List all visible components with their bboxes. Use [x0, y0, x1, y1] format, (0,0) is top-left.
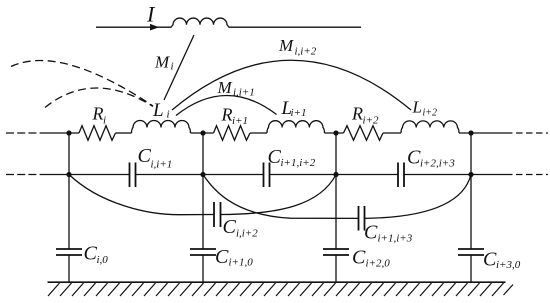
wire [325, 132, 344, 134]
svg-text:i: i [167, 109, 170, 121]
wire [116, 132, 132, 134]
svg-text:R: R [221, 105, 233, 125]
wire main line right dashed stub [506, 132, 548, 134]
wire [459, 132, 506, 134]
wire second line seg 2 [136, 174, 264, 176]
svg-text:M: M [278, 36, 294, 55]
svg-text:C: C [364, 222, 378, 244]
inductor L_i [132, 121, 191, 133]
svg-text:i,i+1: i,i+1 [151, 159, 173, 171]
capacitor C_i+1,i+3 [359, 206, 365, 231]
node 1 (second line) [66, 172, 71, 177]
wire top right [229, 26, 362, 28]
capacitor C_i+2,0 [323, 249, 349, 255]
wire curved C_i+1,i+3 left half [203, 175, 359, 219]
wire C_i+3,0 to ground [470, 255, 472, 282]
capacitor C_i+2,i+3 [398, 163, 404, 188]
dashed mutual arc lower left [45, 88, 153, 108]
svg-text:i: i [171, 61, 174, 73]
wire C_i,0 to ground [68, 255, 70, 282]
wire second line seg 1 [41, 174, 130, 176]
wire second line seg 3 [270, 174, 399, 176]
svg-text:i+1: i+1 [232, 115, 248, 127]
wire C_i+1,0 to ground [202, 255, 204, 282]
svg-text:i+2,i+3: i+2,i+3 [420, 158, 455, 170]
wire C_i+2,0 to ground [335, 255, 337, 282]
svg-text:M: M [217, 78, 233, 97]
wire curved C_i,i+2 right half [221, 175, 337, 215]
capacitor C_i+3,0 [458, 249, 484, 255]
wire [250, 132, 267, 134]
wire second line seg 4 [404, 174, 506, 176]
svg-text:C: C [483, 249, 497, 271]
svg-text:i: i [103, 115, 106, 127]
wire main line left dashed stub [6, 132, 41, 134]
svg-text:i+2: i+2 [423, 108, 438, 119]
capacitor C_i,i+1 [130, 163, 136, 188]
svg-text:i,i+2: i,i+2 [236, 228, 258, 240]
current arrow [150, 24, 159, 31]
capacitor C_i,i+2 [214, 202, 221, 227]
node 1 (main line) [66, 130, 71, 135]
svg-text:L: L [412, 98, 422, 117]
wire top left (return conductor) [96, 26, 172, 28]
svg-text:i,0: i,0 [97, 254, 109, 266]
wire second line left dashed stub [6, 174, 41, 176]
svg-text:i+1,0: i+1,0 [229, 257, 254, 269]
svg-text:i+2,0: i+2,0 [366, 258, 391, 270]
wire vertical node 3 to C_i+2,0 [335, 133, 337, 249]
svg-text:L: L [152, 100, 164, 121]
svg-text:i+3,0: i+3,0 [496, 259, 521, 271]
svg-text:i+2: i+2 [363, 115, 379, 127]
svg-text:R: R [351, 104, 363, 124]
svg-text:C: C [407, 147, 421, 169]
svg-text:i,i+1: i,i+1 [233, 87, 255, 99]
node 2 (second line) [200, 172, 205, 177]
svg-text:i+1,i+3: i+1,i+3 [378, 233, 413, 245]
svg-text:R: R [92, 104, 104, 124]
mutual arc M_i,i+2 [172, 60, 411, 110]
inductor top (return conductor coil) [172, 18, 229, 27]
svg-text:C: C [215, 246, 229, 268]
node 3 (second line) [333, 172, 338, 177]
node 4 (second line) [468, 172, 473, 177]
ground hatching [48, 283, 513, 296]
capacitor C_i+1,i+2 [264, 163, 270, 188]
wire [383, 132, 401, 134]
wire curved C_i+1,i+3 right half [365, 175, 472, 219]
wire vertical node 2 to C_i+1,0 [202, 133, 204, 249]
wire [191, 132, 214, 134]
ground plane line [48, 281, 506, 283]
wire second line right dashed stub [506, 174, 548, 176]
node 3 (main line) [333, 130, 338, 135]
svg-text:C: C [268, 146, 282, 168]
inductor L_i+1 [267, 121, 325, 133]
svg-text:C: C [138, 145, 152, 167]
wire main line left [41, 132, 79, 134]
mutual arc M_i,i+1 [176, 95, 277, 115]
svg-text:i,i+2: i,i+2 [295, 46, 317, 58]
svg-text:C: C [223, 216, 237, 238]
svg-text:C: C [352, 247, 366, 269]
capacitor C_i+1,0 [190, 249, 216, 255]
wire vertical node 1 to C_i,0 [68, 133, 70, 249]
mutual coupling line M_i [164, 35, 194, 100]
resistor R_i+1 [214, 126, 251, 141]
svg-text:i+1,i+2: i+1,i+2 [281, 157, 316, 169]
resistor R_i [79, 126, 116, 141]
svg-text:C: C [84, 243, 98, 265]
inductor L_i+2 [401, 121, 459, 133]
resistor R_i+2 [344, 126, 384, 141]
dashed mutual arc upper left [11, 61, 153, 106]
wire vertical node 4 to C_i+3,0 [470, 133, 472, 249]
svg-text:M: M [154, 53, 170, 72]
svg-text:i+1: i+1 [291, 107, 307, 119]
capacitor C_i,0 [56, 249, 82, 255]
node 4 (main line) [468, 130, 473, 135]
node 2 (main line) [200, 130, 205, 135]
wire curved C_i,i+2 left half [69, 175, 214, 215]
